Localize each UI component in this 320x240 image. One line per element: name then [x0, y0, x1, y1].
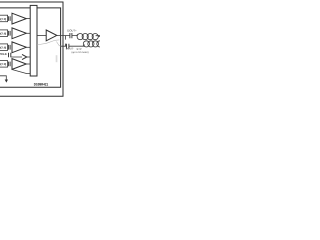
arrow down [5, 80, 8, 83]
stub below DOUT+ [65, 36, 67, 40]
twisted pair loops lower [83, 45, 85, 47]
buffer A1 [12, 13, 26, 24]
svg-text:DS99R421: DS99R421 [34, 83, 48, 87]
wire DOUT+ [57, 35, 100, 37]
svg-text:DOUT-: DOUT- [66, 48, 74, 51]
svg-text:D[7:0]: D[7:0] [0, 18, 6, 21]
input box D1 [0, 15, 8, 22]
svg-text:D[7:0]: D[7:0] [0, 46, 6, 49]
buffer A3 [12, 42, 26, 53]
wire A4 to U2 [26, 63, 30, 65]
capacitor C1 [70, 33, 72, 38]
svg-text:(up to 10 meter): (up to 10 meter) [72, 51, 89, 54]
svg-text:DOUT+: DOUT+ [67, 29, 77, 32]
pin bars row 4 [8, 62, 10, 67]
input box D2 [0, 30, 8, 37]
output driver U3 [46, 30, 57, 41]
faint mark inside chip [56, 55, 58, 62]
svg-text:D[7:0]: D[7:0] [0, 32, 6, 35]
pin bars row 3 [8, 45, 10, 50]
arrow PCLK [22, 54, 27, 59]
stub above DOUT- [65, 44, 67, 47]
wire A2 to U2 [26, 32, 30, 34]
svg-text:PCLK: PCLK [0, 53, 7, 56]
pin bars row 2 [8, 31, 10, 36]
wire bottom-left [0, 76, 6, 80]
svg-text:D[7:0]: D[7:0] [0, 63, 6, 66]
pin bars PCLK [9, 53, 11, 57]
board outline (outer frame, cropped at left) [0, 2, 63, 96]
pin bars row 1 [8, 16, 10, 21]
wire A3 to U2 [26, 46, 30, 48]
capacitor C2 [67, 44, 69, 49]
mux U2 (tall narrow rect) [30, 5, 37, 76]
wire DOUT- inner diagonal [37, 40, 59, 45]
wire A1 to U2 [26, 18, 30, 20]
buffer A4 [12, 59, 26, 70]
input box D4 [0, 61, 8, 68]
buffer A2 [12, 28, 26, 39]
input box D3 [0, 44, 8, 51]
twisted pair loops upper [77, 34, 79, 36]
serializer U1 chip box (inner rectangle, cropped at left) [0, 8, 61, 87]
wire DOUT- [61, 45, 85, 47]
wire apex to DOUT- [56, 42, 60, 47]
wire row4 diagonal to U2 [12, 70, 30, 74]
wire U2 to U3 [37, 35, 46, 37]
svg-text:STP: STP [77, 48, 82, 51]
wire PCLK [11, 56, 30, 58]
